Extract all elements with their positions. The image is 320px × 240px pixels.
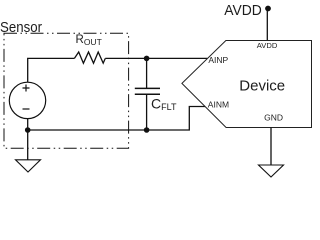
capacitor CFLT — [135, 88, 160, 94]
svg-text:AINP: AINP — [208, 55, 228, 65]
sensor enclosure dash-dot box — [4, 33, 129, 148]
wire source top to resistor — [28, 58, 75, 82]
svg-text:AVDD: AVDD — [224, 2, 262, 19]
wire bottom rail to AINM — [28, 107, 205, 131]
node AVDD terminal dot — [265, 6, 271, 12]
node bottom cap junction — [144, 127, 150, 133]
svg-text:ROUT: ROUT — [76, 34, 102, 47]
resistor ROUT — [74, 52, 105, 63]
plus sign — [23, 85, 30, 92]
node source bottom junction — [25, 127, 31, 133]
wire AVDD to device — [266, 9, 268, 41]
wire device GND to ground — [270, 128, 272, 165]
wire source bottom — [27, 119, 29, 130]
voltage source V1 — [9, 82, 45, 118]
wire junction to capacitor — [146, 58, 148, 88]
svg-text:AVDD: AVDD — [257, 41, 278, 50]
svg-text:CFLT: CFLT — [151, 96, 177, 113]
svg-text:GND: GND — [264, 113, 283, 123]
device U1 outline — [182, 41, 312, 128]
ground device — [259, 165, 284, 177]
minus sign — [23, 108, 30, 110]
svg-text:Sensor: Sensor — [0, 19, 42, 36]
ground sensor — [16, 160, 41, 172]
wire to sensor ground — [27, 130, 29, 160]
wire resistor to AINP — [105, 57, 207, 59]
svg-text:Device: Device — [239, 78, 285, 95]
wire capacitor to bottom rail — [146, 94, 148, 130]
node top cap junction — [144, 56, 150, 62]
svg-text:AINM: AINM — [208, 100, 229, 110]
